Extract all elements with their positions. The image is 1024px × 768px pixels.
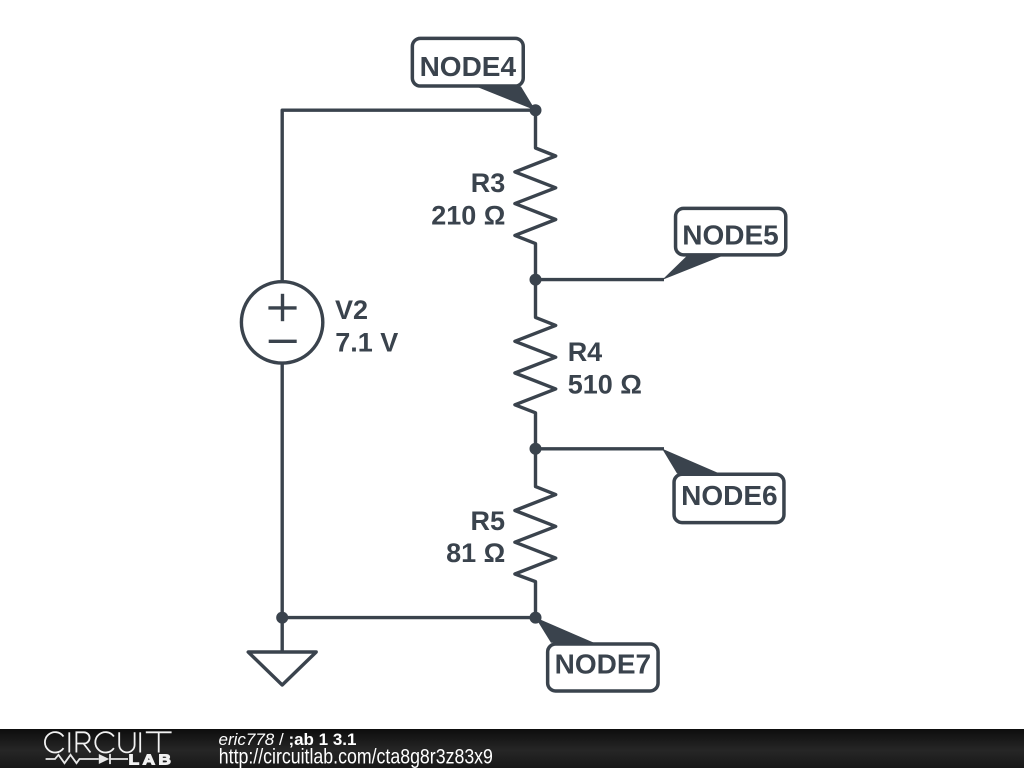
svg-text:510 Ω: 510 Ω — [568, 370, 642, 400]
svg-text:R3: R3 — [471, 168, 506, 198]
svg-text:81 Ω: 81 Ω — [446, 538, 505, 568]
svg-text:V2: V2 — [335, 295, 368, 325]
svg-text:210 Ω: 210 Ω — [431, 201, 505, 231]
svg-text:LAB: LAB — [129, 752, 175, 768]
svg-text:R4: R4 — [568, 337, 603, 367]
svg-text:NODE7: NODE7 — [555, 648, 651, 679]
svg-text:NODE6: NODE6 — [681, 480, 777, 511]
svg-text:http://circuitlab.com/cta8g8r3: http://circuitlab.com/cta8g8r3z83x9 — [219, 745, 493, 768]
svg-text:7.1 V: 7.1 V — [335, 327, 398, 357]
svg-text:NODE5: NODE5 — [682, 220, 778, 251]
svg-text:NODE4: NODE4 — [420, 51, 517, 82]
svg-text:R5: R5 — [470, 506, 505, 536]
